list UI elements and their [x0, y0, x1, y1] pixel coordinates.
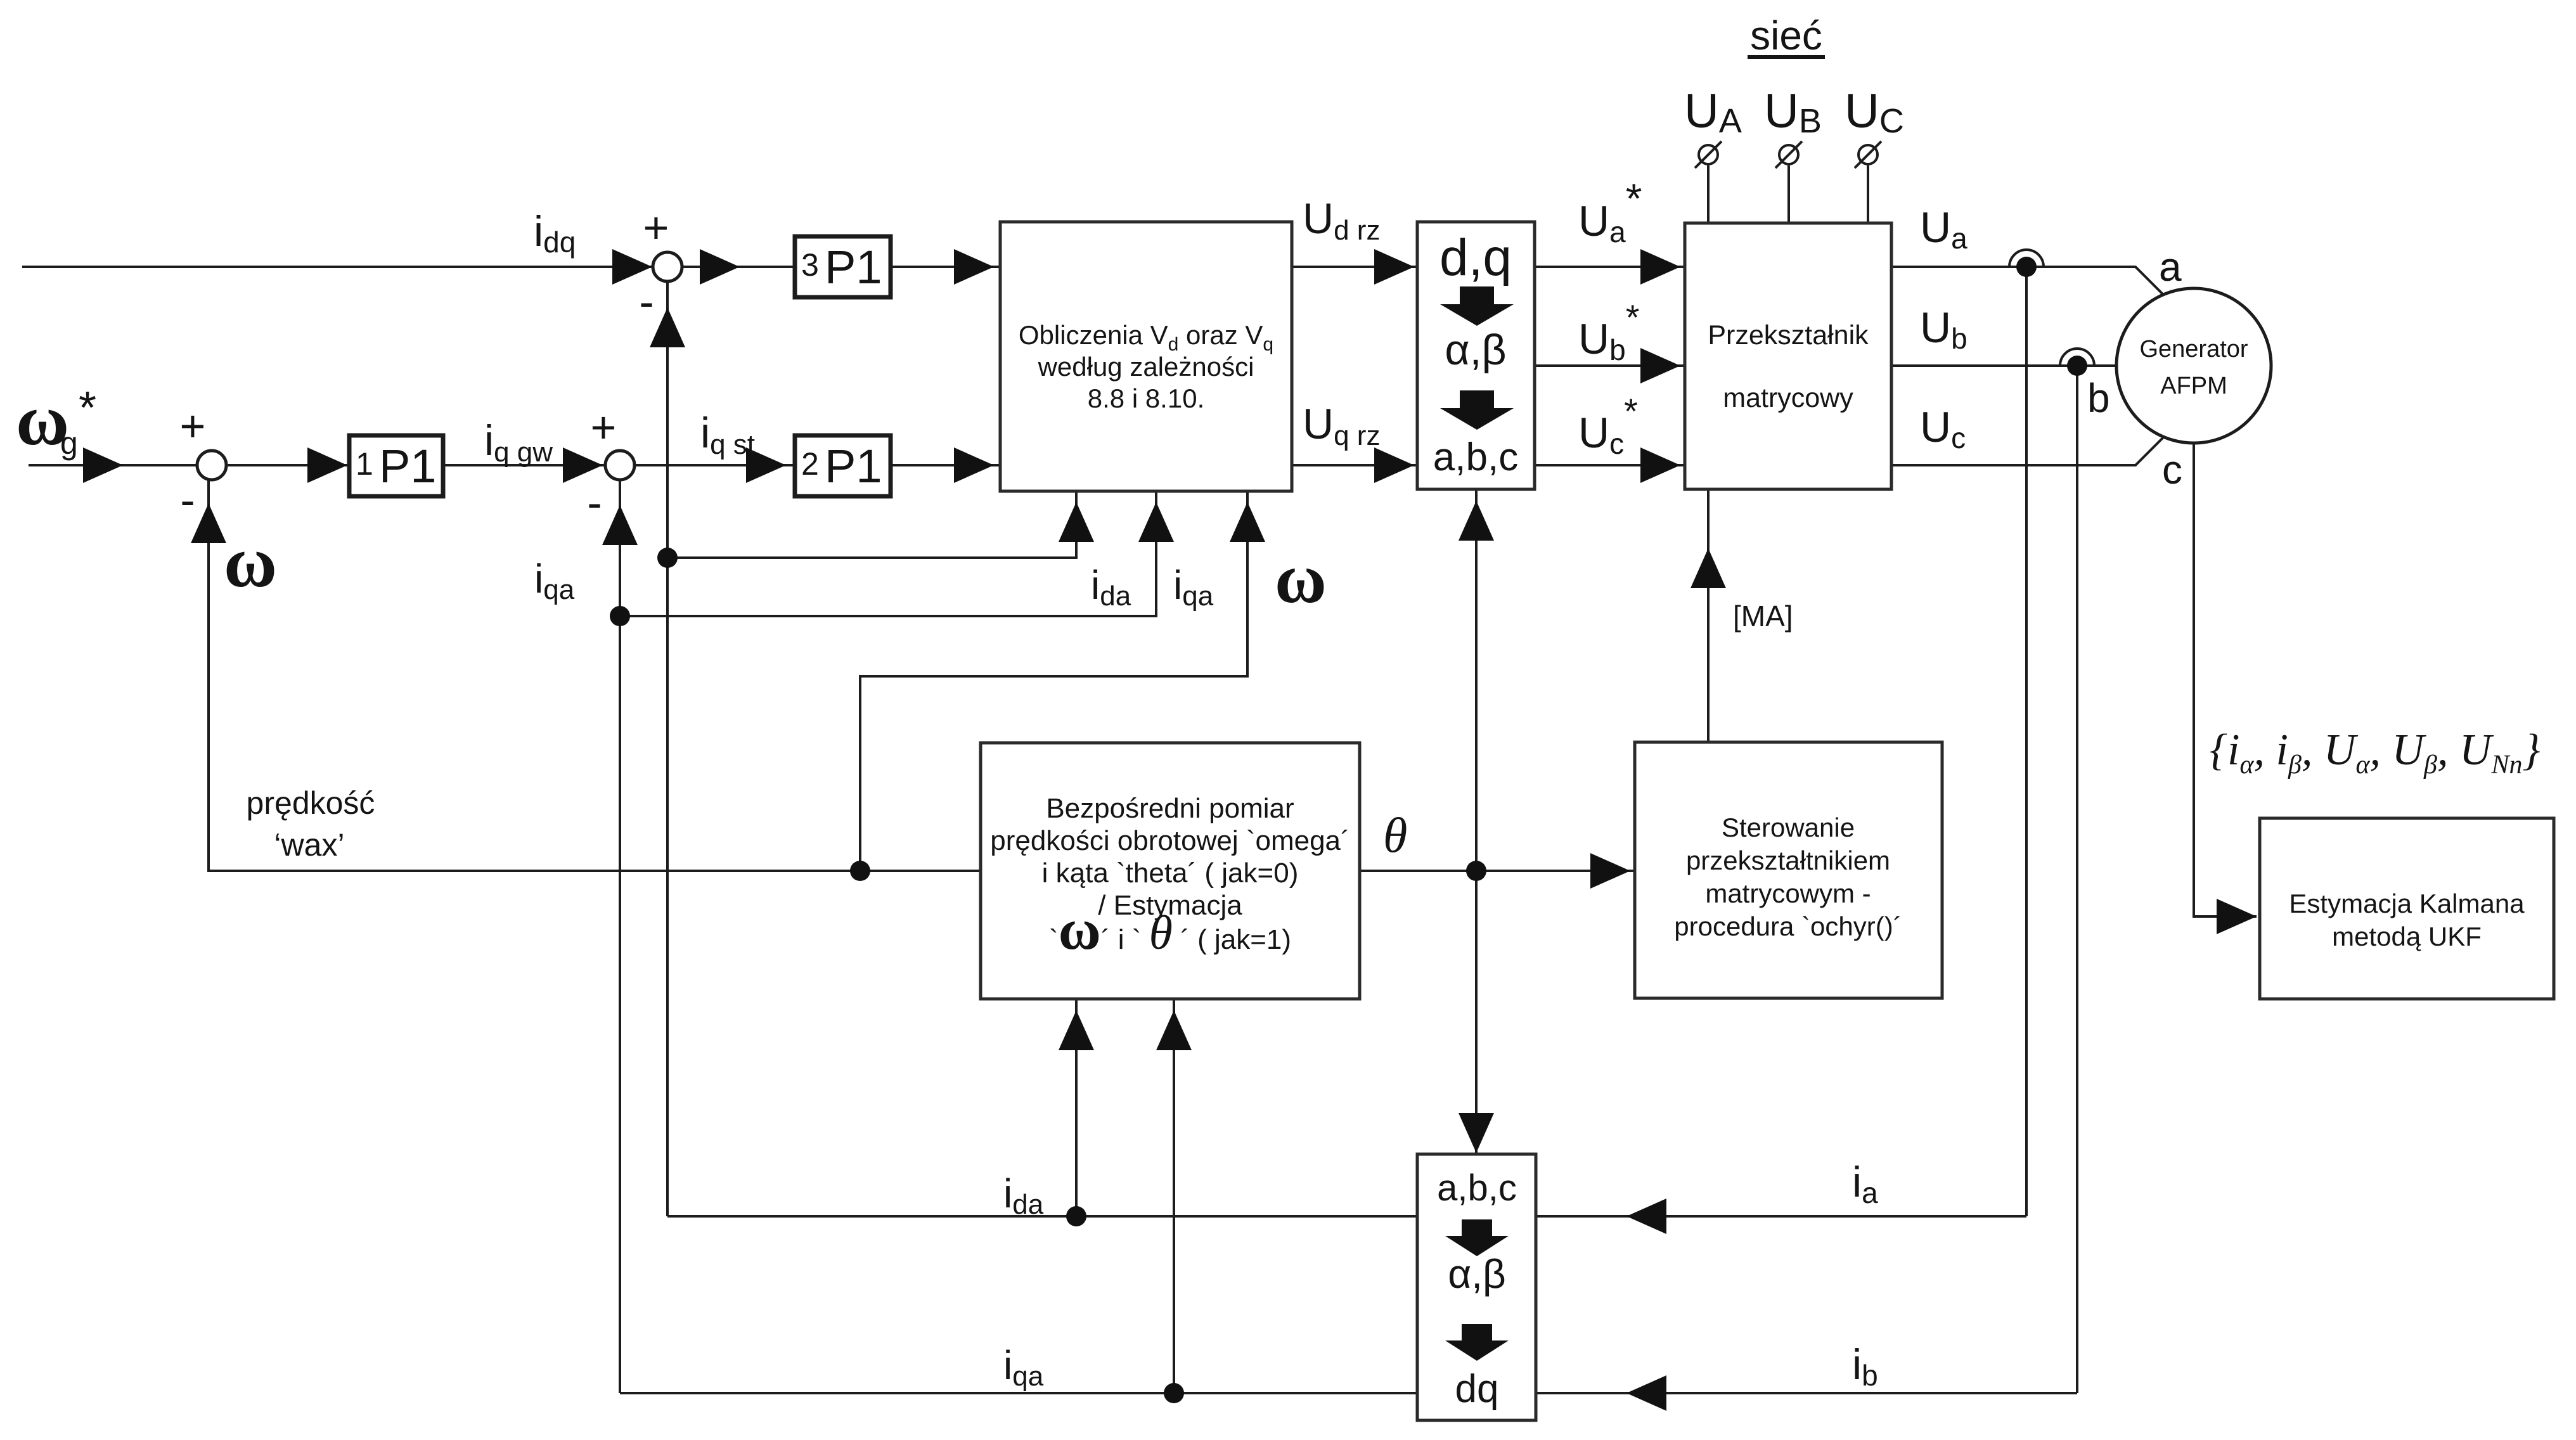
wire theta down to abc-dq block — [1475, 871, 1478, 1154]
junction dot i_da bottom — [1066, 1206, 1086, 1226]
svg-text:-: - — [587, 478, 602, 527]
arrowhead U_q rz — [1374, 447, 1414, 483]
block Bezposredni pomiar / estymacja — [981, 743, 1360, 999]
wire S1 to 1P1 — [226, 464, 349, 466]
block dq to abc transform — [1417, 222, 1535, 489]
wire i_a feedback — [1536, 1215, 2026, 1218]
svg-text:Uc*: Uc* — [1578, 391, 1638, 460]
wire U_B drop to converter — [1787, 165, 1790, 223]
svg-text:dq: dq — [1455, 1367, 1499, 1411]
wire U_c phase c to generator — [1891, 437, 2163, 465]
block arrow down 1 in dq-abc — [1440, 286, 1514, 326]
svg-text:2: 2 — [801, 446, 819, 482]
wire i_qa bottom feedback line — [620, 1392, 1417, 1394]
svg-text:‘wax’: ‘wax’ — [274, 827, 344, 863]
arrowhead i_b into abc-dq block — [1626, 1375, 1666, 1411]
svg-text:ω: ω — [1275, 539, 1327, 618]
block 1P1 controller — [349, 435, 443, 496]
summing node S2 (q current) — [605, 451, 634, 480]
svg-text:{iα, iβ, Uα, Uβ, UNn}: {iα, iβ, Uα, Uβ, UNn} — [2210, 726, 2541, 780]
svg-text:iqa: iqa — [534, 556, 575, 605]
svg-text:+: + — [643, 203, 669, 252]
svg-text:sieć: sieć — [1750, 13, 1822, 58]
svg-text:-: - — [180, 475, 195, 525]
svg-text:AFPM: AFPM — [2160, 373, 2227, 399]
arrowhead i_qa minus into S2 — [602, 505, 638, 545]
arrowhead i_qa into Bezposredni bottom — [1156, 1010, 1192, 1050]
wire U_a phase a to generator — [1891, 267, 2163, 295]
wire tap a vertical down to i_a — [2025, 267, 2028, 1216]
arrowhead into Kalman box — [2217, 899, 2257, 934]
arrowhead MA up — [1690, 548, 1726, 588]
block Przeksztalnik matrycowy — [1685, 223, 1891, 489]
wire 3P1 to Obliczenia box — [891, 266, 1000, 268]
svg-text:3: 3 — [801, 247, 819, 283]
arrowhead omega minus into S1 — [191, 503, 226, 543]
wire tap b vertical down to i_b — [2076, 366, 2078, 1393]
arrowhead into 2P1 — [746, 447, 786, 483]
svg-text:metodą UKF: metodą UKF — [2332, 922, 2482, 951]
block abc to dq transform — [1417, 1154, 1536, 1420]
arrowhead U_b* — [1640, 348, 1680, 383]
block 3P1 controller — [795, 236, 891, 297]
phase terminal symbol B — [1775, 141, 1802, 168]
wire i_dq input line — [22, 266, 653, 268]
svg-text:Obliczenia Vd oraz Vq: Obliczenia Vd oraz Vq — [1019, 320, 1273, 355]
wire i_da vertical riser to S1d minus — [666, 281, 669, 1216]
arrowhead into Obliczenia row2 — [954, 447, 994, 483]
arrowhead U_d rz — [1374, 249, 1414, 285]
wire U_b phase b to generator — [1891, 364, 2116, 367]
svg-text:procedura `ochyr()´: procedura `ochyr()´ — [1674, 911, 1902, 941]
block 2P1 controller — [795, 435, 891, 496]
svg-text:Uc: Uc — [1920, 403, 1966, 454]
wire U_d rz — [1292, 266, 1417, 268]
svg-text:UB: UB — [1764, 84, 1822, 140]
arrowhead U_c* — [1640, 447, 1680, 483]
svg-text:i kąta `theta´ ( jak=0): i kąta `theta´ ( jak=0) — [1042, 858, 1299, 889]
block arrow down 2 in dq-abc — [1440, 390, 1514, 430]
arrowhead into summing node S1d — [612, 249, 652, 285]
arrowhead into Obliczenia row1 — [954, 249, 994, 285]
svg-text:a,b,c: a,b,c — [1437, 1167, 1517, 1209]
svg-text:Ud rz: Ud rz — [1303, 195, 1380, 246]
svg-text:α,β: α,β — [1448, 1251, 1506, 1297]
svg-text:Bezpośredni pomiar: Bezpośredni pomiar — [1046, 793, 1294, 824]
block Obliczenia Vd Vq — [1000, 222, 1292, 491]
wire theta output to Sterowanie — [1360, 870, 1635, 872]
svg-text:*: * — [79, 383, 96, 434]
wire i_b feedback — [1536, 1392, 2077, 1394]
wire i_qa riser into Bezposredni box — [1173, 999, 1175, 1393]
svg-text:według zależności: według zależności — [1038, 352, 1254, 382]
svg-text:ida: ida — [1003, 1171, 1044, 1220]
svg-text:a,b,c: a,b,c — [1433, 435, 1518, 479]
svg-text:c: c — [2162, 447, 2182, 492]
svg-text:-: - — [639, 277, 654, 326]
svg-text:Estymacja Kalmana: Estymacja Kalmana — [2289, 889, 2525, 918]
svg-text:iq gw: iq gw — [484, 416, 553, 468]
wire S2 to 2P1 (i_q st) — [634, 464, 795, 466]
arrowhead into 1P1 — [307, 447, 347, 483]
wire omega wax line — [209, 480, 981, 871]
wire U_q rz — [1292, 464, 1417, 466]
arrowhead into S2 — [563, 447, 603, 483]
junction dot i_qa bottom — [1164, 1383, 1184, 1403]
svg-text:iqa: iqa — [1003, 1342, 1044, 1392]
svg-text:ib: ib — [1852, 1340, 1878, 1392]
arrowhead i_da into Bezposredni bottom — [1059, 1010, 1094, 1050]
current tap a with dot and hop — [2016, 257, 2037, 277]
svg-text:UC: UC — [1845, 84, 1904, 140]
svg-text:+: + — [591, 402, 617, 452]
svg-text:1: 1 — [356, 446, 373, 482]
wire U_a* — [1535, 266, 1685, 268]
junction dot i_da branch — [657, 548, 678, 568]
svg-text:Uq rz: Uq rz — [1303, 400, 1380, 451]
svg-text:Przekształnik: Przekształnik — [1708, 320, 1869, 350]
svg-text:Ua*: Ua* — [1578, 175, 1642, 248]
arrowhead theta up — [1459, 501, 1494, 541]
svg-text:a: a — [2159, 244, 2182, 290]
svg-text:P1: P1 — [379, 440, 437, 492]
phase terminal symbol C — [1855, 141, 1881, 168]
arrowhead i_qa into Obliczenia bottom — [1138, 502, 1174, 542]
wire generator to Kalman estimator — [2194, 443, 2257, 916]
wire U_b* — [1535, 364, 1685, 367]
wire S1d to 3P1 — [682, 266, 795, 268]
arrowhead theta into Sterowanie — [1590, 853, 1630, 889]
svg-text:P1: P1 — [825, 241, 882, 293]
wire 2P1 to Obliczenia box — [891, 464, 1000, 466]
wire U_c* — [1535, 464, 1685, 466]
block arrow down 2 in abc-dq — [1445, 1324, 1509, 1361]
wire MA from Sterowanie up to converter — [1707, 489, 1710, 742]
summing node S1d (d-axis current) — [653, 252, 682, 281]
svg-text:iqa: iqa — [1173, 562, 1214, 612]
svg-text:α,β: α,β — [1445, 326, 1506, 374]
svg-text:d,q: d,q — [1439, 229, 1512, 286]
svg-text:prędkości obrotowej `omega´: prędkości obrotowej `omega´ — [990, 825, 1349, 856]
wire i_da riser into Bezposredni box — [1075, 999, 1078, 1216]
junction dot i_qa branch — [610, 606, 630, 626]
arrowhead i_da into Obliczenia bottom — [1059, 502, 1094, 542]
wire U_C drop to converter — [1867, 165, 1869, 223]
junction dot theta — [1466, 861, 1486, 881]
arrowhead i_da minus into S1d — [650, 307, 685, 347]
svg-text:prędkość: prędkość — [247, 785, 375, 821]
block Estymacja Kalmana — [2260, 818, 2554, 999]
wire U_A drop to converter — [1707, 165, 1710, 223]
wire i_qa vertical riser to S2 minus — [619, 480, 621, 1393]
svg-text:Sterowanie: Sterowanie — [1722, 813, 1855, 842]
svg-text:matrycowy: matrycowy — [1723, 383, 1853, 413]
svg-text:idq: idq — [534, 207, 576, 259]
wire i_da bottom feedback line — [667, 1215, 1417, 1218]
svg-text:matrycowym -: matrycowym - — [1705, 878, 1871, 908]
arrowhead omega into Obliczenia bottom — [1230, 502, 1265, 542]
block Sterowanie przeksztaltnikiem — [1635, 742, 1942, 998]
wire i_qa branch to Obliczenia — [620, 491, 1156, 616]
wire omega_g* input line — [29, 464, 197, 466]
svg-text:iq st: iq st — [700, 409, 755, 460]
svg-text:g: g — [60, 425, 78, 461]
svg-text:P1: P1 — [825, 440, 882, 492]
wire 1P1 to S2 (i_q gw) — [443, 464, 605, 466]
svg-text:ia: ia — [1852, 1158, 1878, 1209]
svg-text:przekształtnikiem: przekształtnikiem — [1686, 845, 1890, 875]
arrowhead i_a into abc-dq block — [1626, 1199, 1666, 1234]
arrowhead after S1d — [700, 249, 740, 285]
wire i_da branch to Obliczenia — [667, 491, 1076, 558]
arrowhead theta down — [1459, 1113, 1494, 1153]
wire theta up into dq-abc block — [1475, 489, 1478, 871]
generator AFPM circle — [2116, 288, 2271, 443]
svg-text:Ub*: Ub* — [1578, 297, 1640, 366]
arrowhead U_a* — [1640, 249, 1680, 285]
arrowhead on omega_g* input — [83, 447, 123, 483]
svg-text:Ub: Ub — [1920, 304, 1967, 355]
svg-text:+: + — [180, 401, 206, 451]
svg-text:θ: θ — [1383, 807, 1407, 863]
junction dot omega branch — [850, 861, 870, 881]
current tap b with dot and hop — [2067, 356, 2087, 376]
svg-text:b: b — [2087, 375, 2110, 421]
svg-text:Ua: Ua — [1920, 203, 1967, 255]
wire omega branch to Obliczenia — [860, 491, 1247, 871]
block arrow down 1 in abc-dq — [1445, 1219, 1509, 1256]
svg-text:UA: UA — [1684, 84, 1742, 140]
svg-text:ida: ida — [1091, 562, 1131, 612]
summing node S1 (speed) — [197, 451, 226, 480]
svg-text:ω: ω — [224, 522, 277, 602]
svg-text:[MA]: [MA] — [1733, 600, 1793, 633]
svg-text:8.8 i 8.10.: 8.8 i 8.10. — [1088, 383, 1204, 413]
svg-text:Generator: Generator — [2139, 336, 2248, 363]
phase terminal symbol A — [1695, 141, 1722, 168]
